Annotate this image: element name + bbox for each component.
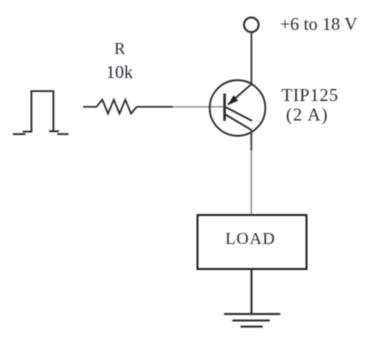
transistor emitter arrowhead	[228, 95, 238, 105]
wire collector junction segment	[250, 130, 252, 151]
svg-text:LOAD: LOAD	[225, 229, 275, 248]
wire collector to load	[250, 151, 252, 216]
transistor Q1 TIP125 circle	[210, 80, 266, 136]
wire base to transistor	[173, 106, 225, 108]
svg-text:10k: 10k	[106, 62, 133, 82]
transistor collector double line	[226, 107, 252, 121]
wire load to ground	[251, 269, 253, 314]
transistor base bar	[223, 94, 226, 121]
svg-text:R: R	[114, 39, 125, 58]
svg-text:(2 A): (2 A)	[286, 105, 329, 126]
ground	[224, 314, 280, 327]
LOAD box	[198, 215, 307, 269]
supply terminal circle	[244, 18, 259, 33]
svg-text:TIP125: TIP125	[282, 85, 339, 105]
wire emitter to supply	[250, 32, 252, 84]
svg-text:+6 to 18 V: +6 to 18 V	[280, 14, 357, 34]
transistor emitter line	[228, 84, 252, 105]
pulse input waveform	[14, 91, 68, 134]
resistor R1	[83, 100, 173, 114]
